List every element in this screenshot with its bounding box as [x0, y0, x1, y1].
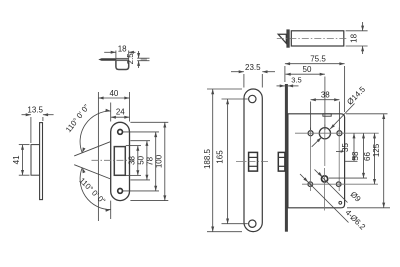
- faceplate front outline: [244, 89, 262, 232]
- dimension 125 (case height): [346, 113, 388, 115]
- dimension 23.5 (faceplate width): [243, 74, 245, 88]
- svg-text:38: 38: [321, 91, 330, 100]
- svg-text:125: 125: [372, 143, 381, 157]
- leader 4-Oslash 6.2: [300, 174, 349, 223]
- latch bolt protrusion (side view): [278, 152, 285, 171]
- dimension 78 (hole spacing): [123, 131, 159, 133]
- faceplate latch cutout stack: [249, 152, 258, 171]
- dimension 75.5 (case depth): [284, 66, 286, 82]
- svg-text:58: 58: [351, 151, 360, 160]
- lock case top view outline: [291, 31, 344, 46]
- dimension 38 (cutout height): [126, 145, 141, 147]
- latch box top view: dust box (U shape): [116, 61, 129, 70]
- svg-text:18: 18: [350, 33, 359, 42]
- strike plate side view: thin plate strip: [40, 123, 43, 200]
- deadbolt catch mark on case right wall: [341, 150, 345, 153]
- dimension 35: [345, 160, 358, 162]
- angle arc bottom 110deg: [80, 168, 111, 210]
- svg-text:3.5: 3.5: [291, 76, 301, 85]
- svg-text:75.5: 75.5: [310, 55, 326, 64]
- dimension 3.5 (faceplate thickness): [277, 85, 285, 87]
- dimension 38 (upper fixing holes): [310, 102, 312, 131]
- screw hole top (strike plate): [118, 130, 123, 135]
- centerline (strike plate): [92, 159, 135, 161]
- fixing hole lower-right: [336, 182, 341, 187]
- svg-text:2.5: 2.5: [126, 53, 135, 65]
- svg-text:188.5: 188.5: [203, 148, 212, 169]
- dimension 13.5 (side view depth): [30, 117, 32, 143]
- svg-text:38: 38: [128, 156, 137, 165]
- svg-text:35: 35: [341, 143, 350, 152]
- dimension 100 (plate height): [130, 121, 168, 123]
- fixing hole upper-right: [337, 131, 342, 136]
- dimension 50 (waist height): [130, 140, 150, 142]
- screw hole bottom (strike plate): [118, 189, 123, 194]
- wing upper edge line: [74, 142, 111, 156]
- dimension 165 (hole spacing faceplate): [222, 98, 248, 100]
- dimension 40 (strike plate total width): [129, 92, 131, 122]
- latch box top view: door frame gray bar: [141, 58, 147, 60]
- svg-text:18: 18: [118, 44, 127, 53]
- svg-text:41: 41: [12, 155, 21, 164]
- svg-text:40: 40: [109, 89, 118, 98]
- fixing hole lower-left: [308, 182, 313, 187]
- cylinder hole (Oslash 9): [322, 176, 328, 182]
- svg-text:13.5: 13.5: [27, 105, 43, 114]
- faceplate screw hole bottom: [249, 220, 256, 227]
- plate extension below (angle dim): [110, 201, 112, 219]
- centerline vertical through follower and cylinder holes: [324, 125, 326, 167]
- centerline vertical through cylinder hole: [324, 168, 326, 211]
- extension line (40 dim, wing outer extent): [97, 92, 99, 221]
- svg-text:23.5: 23.5: [245, 63, 261, 72]
- centerline (top view): [277, 37, 348, 39]
- centerline (faceplate): [236, 160, 269, 162]
- dimension 50 (backset): [286, 73, 325, 75]
- angle arc top 110deg: [80, 111, 111, 153]
- svg-text:78: 78: [146, 156, 155, 165]
- dimension 18 (case thickness): [346, 30, 368, 32]
- dimension 188.5 (faceplate height): [207, 88, 242, 90]
- latch bolt bevel (top view): [278, 34, 286, 43]
- centerline vertical right hole column: [338, 128, 340, 192]
- dimension 66: [374, 133, 376, 184]
- centerline horizontal lower holes: [302, 183, 378, 185]
- small hole bottom: [339, 201, 342, 204]
- leader Oslash 9: [315, 170, 348, 203]
- wing lower edge line: [74, 165, 111, 179]
- dimension 58: [329, 177, 367, 179]
- svg-text:165: 165: [215, 150, 224, 164]
- latch cutout rectangle: [114, 147, 125, 176]
- centerline horizontal through follower: [295, 132, 379, 134]
- strike plate side view: latch box body: [31, 145, 40, 176]
- adjuster slot on case top edge: [323, 114, 331, 116]
- svg-text:100: 100: [155, 154, 164, 168]
- strike plate body (stadium outline): [111, 122, 130, 200]
- lock case outline: [288, 114, 345, 208]
- centerline vertical left hole column: [309, 128, 311, 192]
- latch box top view: gray plate segment: [116, 58, 129, 60]
- svg-text:66: 66: [363, 152, 372, 161]
- svg-text:50: 50: [303, 65, 312, 74]
- leader Oslash 14.5: [312, 137, 322, 146]
- svg-text:50: 50: [137, 155, 146, 164]
- extension line 50-dim vertical: [324, 77, 326, 131]
- dimension 18 (latch box width): [115, 51, 117, 59]
- dimension 2.5 (plate thickness): [137, 57, 149, 59]
- svg-text:24: 24: [116, 107, 125, 116]
- latch box top view: strike plate edge bar: [98, 58, 116, 61]
- dimension 24 (plate width): [110, 103, 112, 122]
- faceplate screw hole top: [249, 95, 256, 102]
- follower hole (Oslash 14.5): [319, 128, 330, 139]
- faceplate bar (top view): [286, 29, 289, 47]
- faceplate edge bar (side view): [285, 84, 288, 232]
- dimension 41 (latch box height): [19, 144, 30, 146]
- fixing hole upper-left: [308, 131, 313, 136]
